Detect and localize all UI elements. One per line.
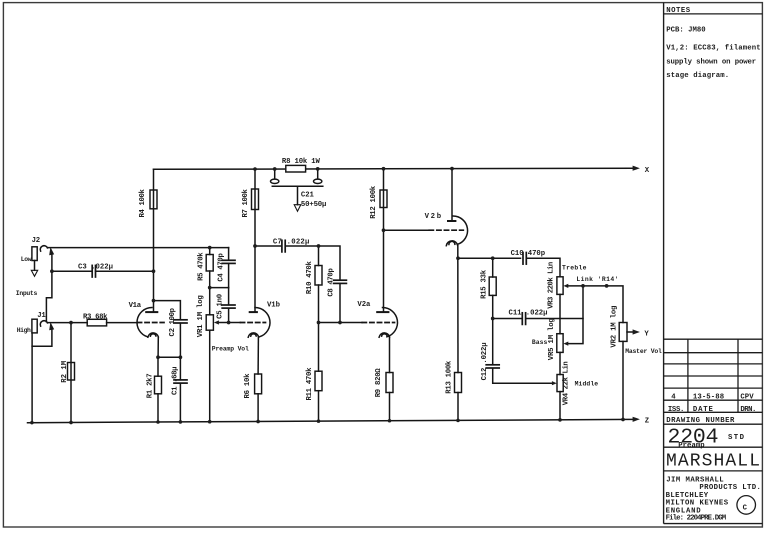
- svg-text:R8 10k 1W: R8 10k 1W: [282, 158, 321, 166]
- grid dashes V1a: [137, 322, 164, 324]
- svg-text:R11 470k: R11 470k: [306, 367, 314, 401]
- svg-text:Middle: Middle: [575, 381, 599, 388]
- resistor R12 100k: [380, 190, 387, 208]
- wire: wiper-top link loop (bass): [568, 286, 583, 344]
- svg-text:R1 2k7: R1 2k7: [147, 373, 155, 398]
- wire: R5/C4 junction link: [210, 287, 229, 289]
- svg-text:R5 470k: R5 470k: [198, 252, 206, 281]
- C21 common plate: [272, 185, 323, 187]
- svg-text:R6 10k: R6 10k: [244, 373, 252, 399]
- junction (71,322.6): [69, 321, 73, 325]
- capacitor C4 470p: [222, 259, 235, 261]
- svg-text:VR2 1M log: VR2 1M log: [611, 306, 619, 348]
- grid dashes V2a: [362, 322, 394, 324]
- junction (318.5,322.5): [317, 321, 321, 325]
- svg-text:MARSHALL: MARSHALL: [666, 451, 760, 471]
- wire: HT supply rail: [154, 168, 633, 169]
- junction (492.7,258.2): [491, 256, 495, 260]
- capacitor C10 470p: [522, 253, 524, 265]
- grid dashes V1b: [240, 322, 265, 324]
- svg-text:R4 100k: R4 100k: [139, 188, 147, 217]
- svg-text:V1a: V1a: [129, 302, 142, 310]
- svg-text:V1b: V1b: [267, 301, 281, 309]
- resistor R1 2k7: [155, 376, 162, 394]
- svg-text:DRN.: DRN.: [740, 406, 756, 414]
- svg-text:Preamp: Preamp: [678, 442, 705, 450]
- wire: R2 column: [70, 323, 72, 423]
- resistor R5 470k: [206, 255, 213, 272]
- wire: C3 node down to J1 tip: [46, 271, 52, 322]
- capacitor C12 .022u: [492, 319, 494, 365]
- capacitor C7 .022u: [281, 240, 283, 252]
- resistor R9 820R: [386, 373, 393, 393]
- node Z (ground to power stage): [633, 417, 640, 422]
- junction (340,322.5): [338, 321, 342, 325]
- resistor R15 33k: [489, 277, 496, 295]
- resistor R11 470k: [315, 371, 322, 391]
- C21 ground arrow: [297, 186, 299, 204]
- svg-text:ISS.: ISS.: [668, 406, 685, 414]
- grid dashes V2b: [429, 229, 463, 231]
- junction (560,419.82): [558, 418, 562, 422]
- svg-text:Link 'R14': Link 'R14': [576, 276, 618, 283]
- potentiometer VR1 1M log (Preamp Vol): [206, 315, 213, 330]
- capacitor C21 right terminal: [317, 169, 319, 179]
- wire: R15 column: [492, 258, 494, 277]
- svg-text:C2 100p: C2 100p: [169, 307, 177, 336]
- svg-text:DATE: DATE: [693, 406, 714, 414]
- potentiometer VR5 1M log (Bass): [557, 334, 563, 353]
- svg-text:Y: Y: [644, 331, 649, 339]
- wire: VR1 wiper to V1b grid: [229, 322, 241, 324]
- wire: J1 tip to V1a grid: [47, 322, 87, 324]
- wire: C12 to VR4 wiper: [493, 368, 552, 383]
- svg-text:R2 1M: R2 1M: [61, 360, 69, 383]
- resistor R13 100k: [455, 373, 462, 393]
- junction (458,258.2): [456, 256, 460, 260]
- svg-text:R9 820Ω: R9 820Ω: [375, 368, 383, 398]
- svg-text:C4 470p: C4 470p: [218, 253, 226, 282]
- svg-text:C10 470p: C10 470p: [511, 250, 546, 258]
- svg-text:C12 .022µ: C12 .022µ: [481, 342, 489, 380]
- resistor R4 100k: [150, 190, 157, 209]
- junction (606.6,285.9): [605, 284, 609, 288]
- svg-text:VR4 22k Lin: VR4 22k Lin: [563, 361, 571, 405]
- svg-text:R3 68k: R3 68k: [83, 313, 108, 321]
- svg-text:PCB: JM80: PCB: JM80: [666, 27, 706, 35]
- potentiometer VR4 22k Lin (Middle): [557, 375, 563, 392]
- svg-text:C21: C21: [301, 191, 315, 199]
- capacitor C2 100p: [174, 319, 187, 321]
- svg-text:R7 100k: R7 100k: [242, 188, 250, 217]
- svg-text:Z: Z: [645, 417, 650, 425]
- svg-text:C3 .022µ: C3 .022µ: [78, 263, 113, 271]
- junction (180.4,357.2): [179, 355, 183, 359]
- triode V2a: [383, 308, 398, 337]
- VR2 wiper output to Y: [627, 331, 633, 333]
- junction (458,420.38): [456, 419, 460, 423]
- junction (317.7,168.9): [316, 167, 320, 171]
- wire: C4 column: [228, 248, 230, 261]
- junction (255,169.05): [253, 167, 257, 171]
- junction (209.7,247.6): [208, 246, 212, 250]
- wire: ground bus: [28, 419, 634, 422]
- svg-text:R15 33k: R15 33k: [481, 269, 489, 299]
- svg-text:High: High: [17, 327, 31, 334]
- capacitor C21 50+50u left terminal: [274, 169, 276, 179]
- junction (452,168.6): [450, 167, 454, 171]
- svg-text:DRAWING NUMBER: DRAWING NUMBER: [666, 417, 735, 425]
- ground arrow at J2 sleeve: [34, 261, 36, 271]
- wire: grid line to V2a: [319, 322, 363, 324]
- junction (383.5,168.75): [382, 167, 386, 171]
- junction (180.4,421.9): [179, 420, 183, 424]
- svg-text:Treble: Treble: [562, 264, 587, 271]
- wire: R5/VR1 column: [209, 248, 211, 255]
- junction (258.1,421.45): [256, 420, 260, 424]
- title block bottom: [664, 523, 763, 525]
- capacitor C8 470p: [334, 279, 347, 281]
- junction (51.9,271.2): [50, 269, 54, 273]
- svg-text:R12 100k: R12 100k: [370, 185, 378, 219]
- jack J1 (High input): [32, 319, 37, 333]
- svg-text:stage diagram.: stage diagram.: [666, 72, 729, 80]
- wire: R10 column: [318, 246, 320, 266]
- wire: C7 line from V1b anode: [255, 245, 282, 247]
- svg-text:J2: J2: [32, 237, 41, 245]
- wire: tone stack feed: [458, 257, 521, 259]
- wire: J1 sleeve+switch to ground: [32, 328, 52, 346]
- svg-text:X: X: [645, 167, 650, 175]
- capacitor C11 .022u: [493, 318, 522, 320]
- junction (274.7,169): [273, 167, 277, 171]
- wire: V2b anode: [451, 168, 453, 220]
- svg-text:CPV: CPV: [740, 394, 754, 402]
- capacitor C3: [52, 270, 92, 272]
- svg-text:C5 1n0: C5 1n0: [216, 294, 224, 319]
- resistor R3 68k: [87, 319, 106, 326]
- wire: C2 branch from anode: [154, 301, 181, 320]
- svg-text:MILTON KEYNES: MILTON KEYNES: [666, 500, 729, 508]
- svg-text:C: C: [743, 504, 748, 512]
- resistor R2 1M: [68, 363, 75, 381]
- junction (209.7,421.72): [208, 420, 212, 424]
- junction (623,419.47): [621, 418, 625, 422]
- svg-text:C11 .022µ: C11 .022µ: [509, 310, 548, 318]
- junction (153.5,300.6): [152, 299, 156, 303]
- triode V2b (cathode follower): [453, 216, 468, 244]
- wire: J2 switch contact down to C3 node: [51, 253, 53, 271]
- svg-text:Bass: Bass: [532, 339, 548, 346]
- svg-text:J1: J1: [37, 312, 46, 320]
- svg-text:Master Vol: Master Vol: [625, 348, 662, 355]
- svg-text:C8 470p: C8 470p: [328, 268, 336, 297]
- svg-text:R10 470k: R10 470k: [306, 260, 314, 294]
- wire: V1b cathode to R6: [257, 337, 259, 374]
- wire: V2a anode column (supply-R12-anode): [383, 169, 385, 311]
- junction (31.9,422.68): [30, 421, 34, 425]
- resistor R7 100k: [252, 189, 259, 210]
- potentiometer VR2 1M log (Master Vol): [619, 323, 627, 342]
- VR3 wiper to link R14: [563, 284, 568, 288]
- notes header underline: [664, 13, 763, 15]
- svg-text:PRODUCTS LTD.: PRODUCTS LTD.: [699, 484, 761, 492]
- triode V1b: [255, 308, 270, 337]
- svg-text:NOTES: NOTES: [666, 7, 691, 15]
- wire: V2b cathode column to R13: [457, 246, 459, 373]
- node X (supply to power stage): [633, 166, 640, 171]
- wire: V2a anode to V2b grid (direct coupling): [384, 229, 430, 231]
- svg-text:C7 .022µ: C7 .022µ: [273, 238, 310, 246]
- junction (209.7,287.6): [208, 286, 212, 290]
- svg-text:VR3 220k Lin: VR3 220k Lin: [547, 262, 555, 309]
- svg-text:Low: Low: [21, 256, 32, 263]
- jack J2 (Low input): [32, 247, 37, 261]
- wire: V1a anode column (supply-R4-anode): [153, 169, 155, 311]
- svg-text:C1 .68µ: C1 .68µ: [171, 366, 179, 395]
- VR1 wiper: [219, 322, 229, 324]
- svg-text:VR5 1M log: VR5 1M log: [548, 318, 556, 360]
- svg-text:V2a: V2a: [357, 301, 371, 309]
- wire: V1a cathode to R1/C1: [157, 337, 159, 357]
- capacitor C1 .68u: [179, 357, 181, 380]
- svg-text:13-5-88: 13-5-88: [693, 394, 724, 402]
- junction (71,422.45): [69, 421, 73, 425]
- resistor R10 470k: [315, 266, 322, 286]
- resistor R6 10k: [255, 374, 262, 394]
- copyright symbol: [737, 496, 756, 515]
- junction (318.5,246): [317, 244, 321, 248]
- junction (492.7,318.5): [491, 317, 495, 321]
- triode V1a: [137, 308, 152, 337]
- svg-text:VR1 1M log: VR1 1M log: [197, 295, 205, 337]
- title block left edge: [663, 3, 665, 524]
- svg-text:4: 4: [671, 394, 676, 402]
- junction (158,357.2): [156, 355, 160, 359]
- resistor R8 10k 1W (series in supply): [286, 165, 306, 172]
- wire: J2 tip to R5/C4 node: [47, 247, 228, 249]
- wire: R11 column: [318, 323, 320, 372]
- svg-text:V2b: V2b: [425, 213, 442, 221]
- junction (389.5,420.75): [388, 419, 392, 423]
- capacitor C5 1n0: [228, 288, 230, 305]
- wire: V2a cathode to R9: [389, 337, 391, 373]
- junction (153.5,271.2): [152, 269, 156, 273]
- svg-text:V1,2: ECC83, filament: V1,2: ECC83, filament: [666, 45, 761, 53]
- svg-text:supply shown on power: supply shown on power: [666, 58, 756, 66]
- svg-text:STD: STD: [728, 434, 745, 442]
- junction (383.5,230.2): [382, 228, 386, 232]
- svg-text:Preamp Vol: Preamp Vol: [212, 345, 249, 352]
- svg-text:50+50µ: 50+50µ: [301, 201, 327, 209]
- svg-text:File: 2204PRE.DGM: File: 2204PRE.DGM: [666, 515, 727, 523]
- junction (158,422): [156, 420, 160, 424]
- junction (228.6,322.5): [227, 321, 231, 325]
- svg-text:Inputs: Inputs: [16, 290, 38, 297]
- wire: V1b anode column (supply-R7-anode): [254, 169, 256, 311]
- junction (255,246): [253, 244, 257, 248]
- junction (583,285.9): [581, 284, 585, 288]
- junction (318.5,421.12): [317, 419, 321, 423]
- potentiometer VR3 220k Lin (Treble): [557, 277, 563, 295]
- svg-text:R13 100k: R13 100k: [445, 360, 453, 394]
